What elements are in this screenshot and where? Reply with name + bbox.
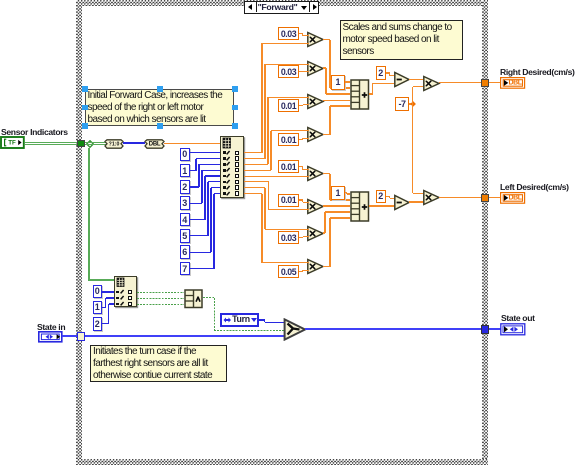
- multiply node 3: [306, 93, 325, 111]
- pin index input mark: [223, 181, 226, 184]
- label Right Desired(cm/s): [500, 67, 577, 76]
- wire element 6 to multiply node: [244, 187, 265, 188]
- compound arithmetic add (lower): [350, 191, 371, 223]
- wire constant to multiply 3: [299, 105, 303, 106]
- wire enum State in to Select: [62, 335, 285, 337]
- wire int constant 2 to Index Array pin: [102, 323, 109, 324]
- svg-text:?1:0: ?1:0: [109, 141, 120, 147]
- case structure right border: [482, 0, 488, 465]
- wire int constant 3 to Index Array pin: [190, 203, 202, 204]
- wire element 1 to multiply node: [244, 158, 265, 159]
- case structure top border: [76, 0, 488, 6]
- indicator Right Desired DBL: [500, 77, 526, 89]
- wire multiply 4 output to compound add input: [323, 134, 331, 135]
- constant 1 (lower): [331, 186, 345, 201]
- pin element output square: [235, 191, 239, 195]
- wire int constant 7 to Index Array pin: [190, 268, 214, 269]
- wire element 4 to multiply node: [244, 176, 309, 177]
- wire multiply 7 output to compound add input: [323, 232, 326, 233]
- label State out: [501, 313, 546, 321]
- pin index input mark: [223, 157, 226, 160]
- label Left Desired(cm/s): [500, 182, 577, 191]
- pin index input mark: [223, 169, 226, 172]
- constant 2 (upper): [376, 66, 387, 80]
- wire int constant 1 to Index Array pin: [190, 170, 196, 171]
- wire enum Turn to Select: [259, 319, 265, 321]
- subtract node (lower): [393, 194, 411, 212]
- comment: Initiates the turn case: [90, 345, 227, 382]
- wire constant to multiply 2: [299, 71, 303, 72]
- constant -7: [395, 97, 409, 111]
- wire subtract upper to multiply final upper: [409, 79, 424, 80]
- wire boolean-array branch down to lower Index Array: [88, 148, 90, 281]
- wire constant to multiply 1: [299, 33, 303, 34]
- control terminal State in: [38, 331, 63, 343]
- wire int constant 0 to Index Array pin: [190, 152, 220, 153]
- subtract node (upper): [393, 71, 411, 89]
- indicator State out: [500, 323, 526, 336]
- wire element 2 to multiply node: [244, 164, 268, 165]
- pin index input mark: [223, 163, 226, 166]
- pin index input mark: [223, 175, 226, 178]
- wire multiply 8 output to compound add input: [323, 266, 331, 267]
- pin index input mark: [116, 297, 119, 300]
- wire int constant 0 to Index Array pin: [102, 291, 114, 292]
- wire boolean element 0 to And: [137, 292, 184, 293]
- wire boolean element 1 to And: [137, 298, 184, 299]
- selection handles of Initial Forward comment: [82, 86, 87, 91]
- wire compound upper output to subtract: [369, 93, 373, 94]
- tunnel State out on case border: [481, 325, 490, 334]
- wire -7 to multiply final upper: [413, 86, 424, 87]
- node Boolean To (0,1) ?1:0: [104, 139, 124, 149]
- pin element output square: [235, 151, 239, 155]
- wire constant to multiply 7: [299, 237, 303, 238]
- wire Select output to State out tunnel: [305, 328, 481, 330]
- pin element output square: [235, 185, 239, 189]
- pin element output square: [128, 302, 132, 306]
- wire -7 to junction: [409, 103, 413, 104]
- wire int from ?1:0 to DBL: [123, 142, 145, 144]
- wire 1 to compound add upper: [345, 81, 350, 82]
- wire And output to Select: [203, 297, 215, 298]
- wire int constant 2 to Index Array pin: [190, 186, 199, 187]
- wire multiply 2 output to compound add input: [323, 67, 327, 68]
- pin index input mark: [223, 192, 226, 195]
- pin element output square: [235, 180, 239, 184]
- wire int constant 4 to Index Array pin: [190, 219, 205, 220]
- label State in: [37, 322, 77, 330]
- multiply node 7: [306, 225, 325, 243]
- case selector label "Forward": [244, 1, 319, 14]
- wire multiply upper output to Right Desired tunnel: [439, 82, 482, 83]
- constant 6 (index): [180, 245, 191, 259]
- wire compound lower output to subtract: [369, 205, 395, 206]
- constant 2 (turn index): [93, 317, 103, 331]
- wire boolean element 2 to And: [137, 304, 184, 305]
- wire -7 vertical branch: [412, 87, 413, 194]
- wire subtract lower to multiply final lower: [409, 201, 424, 202]
- constant 1 (index): [180, 164, 191, 178]
- pin index input mark: [116, 291, 119, 294]
- comment (selected): Initial Forward Case: [85, 89, 234, 126]
- wire element 5 to multiply node: [244, 181, 269, 182]
- tunnel orange Left Desired: [481, 194, 489, 202]
- pin element output square: [235, 156, 239, 160]
- junction dot on -7 wire: [410, 101, 416, 107]
- constant 1 (turn index): [93, 301, 103, 315]
- pin index input mark: [116, 303, 119, 306]
- pin element output square: [128, 296, 132, 300]
- multiply node 1: [306, 31, 325, 49]
- multiply node 4: [306, 126, 325, 144]
- wire multiply lower output to Left Desired tunnel: [439, 197, 482, 198]
- constant 2 (lower): [376, 190, 387, 204]
- wire element 3 to multiply node: [244, 170, 271, 171]
- constant 0 (index): [180, 148, 191, 162]
- wire element 0 to multiply node: [244, 152, 262, 153]
- svg-text:DBL: DBL: [509, 80, 523, 87]
- constant 0.03 (scale 7): [278, 231, 299, 244]
- constant 0.01 (scale 6): [278, 194, 299, 207]
- constant 1 (upper): [331, 75, 345, 90]
- svg-text:TF: TF: [8, 140, 16, 147]
- wire multiply 1 output to compound add input: [323, 39, 331, 40]
- wire constant to multiply 4: [299, 139, 303, 140]
- constant 0.01 (scale 4): [278, 133, 299, 146]
- control terminal Sensor Indicators [TF]: [0, 136, 26, 149]
- multiply node 8: [306, 258, 325, 276]
- pin element output square: [128, 290, 132, 294]
- constant 0.03 (scale 1): [278, 27, 299, 40]
- wire boolean-array from Sensor Indicators to tunnel: [25, 142, 77, 143]
- constant 0 (turn index): [93, 285, 103, 299]
- wire tunnel to State out indicator: [489, 328, 501, 330]
- enum constant Turn: [220, 313, 259, 327]
- wire int constant 6 to Index Array pin: [190, 252, 211, 253]
- svg-text:DBL: DBL: [149, 141, 161, 147]
- constant 2 (index): [180, 180, 191, 194]
- wire element 7 to multiply node: [244, 193, 262, 194]
- constant 0.05 (scale 8): [278, 265, 299, 278]
- wire constant to multiply 6: [299, 199, 303, 200]
- wire 1 to compound add lower: [345, 192, 347, 193]
- pin element output square: [235, 168, 239, 172]
- select node: [283, 318, 307, 341]
- wire constant to multiply 8: [299, 271, 303, 272]
- wire int constant 5 to Index Array pin: [190, 235, 208, 236]
- svg-text:DBL: DBL: [509, 195, 523, 202]
- constant 0.03 (scale 2): [278, 65, 299, 78]
- wire constant to multiply 5: [299, 166, 303, 167]
- multiply final node (upper): [422, 75, 441, 93]
- constant 0.01 (scale 5): [278, 160, 299, 173]
- wire boolean-array tunnel to junction to Boolean-to-0-1 node: [85, 142, 106, 143]
- multiply node 2: [306, 60, 325, 78]
- multiply node 6: [306, 198, 325, 216]
- multiply node 5: [306, 165, 325, 183]
- compound boolean And node: [184, 289, 204, 310]
- wire dbl from DBL to Index Array: [164, 143, 220, 144]
- label Sensor Indicators: [1, 127, 91, 136]
- node Index Array (3 outputs): [114, 276, 138, 308]
- pin index input mark: [223, 151, 226, 154]
- constant 3 (index): [180, 196, 191, 210]
- wire int constant 1 to Index Array pin: [102, 307, 106, 308]
- wire 2 to subtract upper: [386, 72, 390, 73]
- pin element output square: [235, 162, 239, 166]
- case structure left border: [76, 0, 82, 465]
- case structure bottom border: [76, 459, 488, 465]
- comment: Scales and sums change to motor speed based on lit sensors: [340, 20, 463, 60]
- tunnel State in on case border: [77, 332, 85, 341]
- constant 4 (index): [180, 213, 191, 227]
- constant 7 (index): [180, 262, 191, 276]
- tunnel green input on case border: [77, 140, 85, 148]
- pin index input mark: [223, 186, 226, 189]
- node Index Array (8 outputs): [220, 136, 244, 199]
- constant 5 (index): [180, 229, 191, 243]
- tunnel orange Right Desired: [481, 79, 489, 87]
- wire multiply 3 output to compound add input: [323, 100, 350, 101]
- node To Double Precision Float DBL: [144, 139, 165, 149]
- multiply final node (lower): [422, 189, 441, 207]
- indicator Left Desired DBL: [500, 192, 526, 204]
- wire multiply 6 output to compound add input: [323, 205, 350, 206]
- pin element output square: [235, 174, 239, 178]
- wire tunnel to Left Desired indicator: [489, 197, 501, 198]
- wire multiply 5 output to compound add input: [323, 173, 331, 174]
- wire -7 to multiply final lower: [413, 193, 424, 194]
- wire tunnel to Right Desired indicator: [489, 82, 501, 83]
- compound arithmetic add (upper): [350, 79, 371, 111]
- constant 0.01 (scale 3): [278, 99, 299, 112]
- wire 2 to subtract lower: [386, 196, 390, 197]
- wire junction diamond: [86, 140, 94, 148]
